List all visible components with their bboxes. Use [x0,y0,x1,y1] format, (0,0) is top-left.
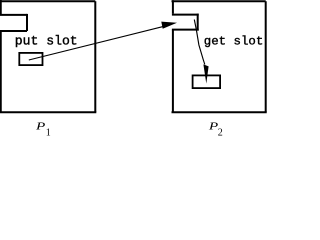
svg-text:1: 1 [46,128,51,136]
process box P1 right edge [94,1,96,112]
message arrow from P1 put slot to P2 mailbox mouth: line [29,27,163,60]
process box P1 mailbox pocket bottom lip [0,30,27,32]
svg-text:2: 2 [218,128,223,136]
svg-text:get slot: get slot [204,34,263,48]
process box P2 right edge [265,1,267,112]
process box P2 left wall lower segment [172,30,174,113]
process box P1 left wall lower segment [0,30,2,112]
process box P1 mailbox pocket end wall [26,14,28,31]
process box P2 mailbox pocket end wall [197,14,199,31]
svg-text:put slot: put slot [15,34,78,49]
svg-text:P: P [35,121,46,132]
process box P1 top edge [0,0,95,2]
process box P2 top edge [172,0,266,2]
process box P2 bottom edge [172,111,267,113]
process box P1 bottom edge [0,111,96,113]
put slot rectangle in P1 [19,53,42,65]
message arrow from P1 put slot to P2 mailbox mouth: arrowhead [161,22,177,29]
process box P2 left wall upper segment [172,0,174,13]
process box P2 mailbox pocket upper lip [172,14,199,16]
process box P1 mailbox pocket upper lip [0,14,27,16]
process box P2 mailbox pocket bottom lip [172,29,199,31]
get slot rectangle in P2 [193,75,221,88]
arrow from P2 mailbox pocket down into get slot: line [194,20,205,65]
process box P1 left wall upper segment [0,0,2,15]
arrow from P2 mailbox pocket down into get slot: arrowhead [203,64,208,83]
